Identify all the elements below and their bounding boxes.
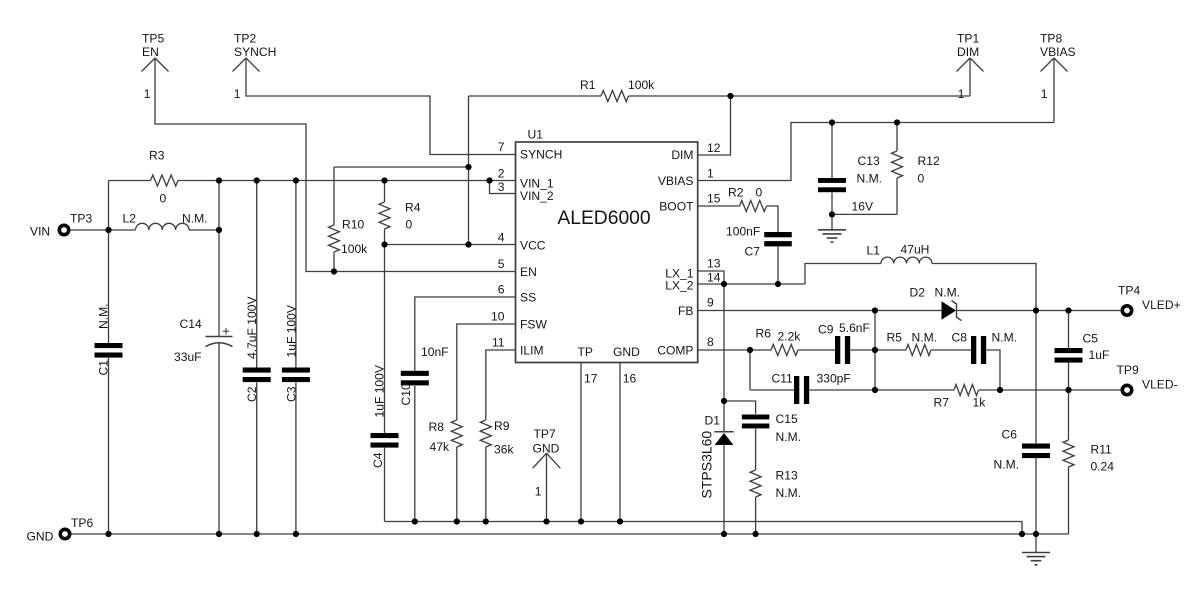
svg-text:100nF: 100nF [726,225,760,239]
svg-text:1uF 100V: 1uF 100V [284,304,298,357]
svg-text:L2: L2 [123,212,137,226]
svg-text:N.M.: N.M. [935,286,961,300]
svg-text:C15: C15 [776,412,798,426]
svg-text:R10: R10 [342,218,364,232]
svg-text:C5: C5 [1083,332,1099,346]
svg-text:N.M.: N.M. [857,172,883,186]
svg-text:TP2: TP2 [234,32,256,46]
svg-text:GND: GND [613,345,640,359]
svg-text:8: 8 [707,335,714,349]
svg-text:VCC: VCC [520,239,546,253]
svg-text:GND: GND [27,530,54,544]
svg-text:EN: EN [142,45,159,59]
svg-text:C8: C8 [952,331,968,345]
svg-text:R1: R1 [580,78,596,92]
svg-text:1: 1 [535,485,542,499]
svg-text:4.7uF 100V: 4.7uF 100V [245,296,259,359]
svg-text:C13: C13 [858,154,880,168]
svg-text:R6: R6 [756,327,772,341]
svg-text:10: 10 [491,310,505,324]
svg-text:DIM: DIM [957,45,979,59]
svg-text:16: 16 [623,372,637,386]
svg-text:N.M.: N.M. [776,486,802,500]
svg-text:5: 5 [498,257,505,271]
svg-text:VLED+: VLED+ [1142,298,1181,312]
svg-text:VBIAS: VBIAS [1040,45,1076,59]
svg-text:C9: C9 [818,323,834,337]
svg-text:TP8: TP8 [1040,32,1062,46]
svg-text:N.M.: N.M. [912,331,938,345]
svg-text:R7: R7 [934,396,950,410]
svg-text:SS: SS [520,291,536,305]
svg-text:1: 1 [234,87,241,101]
svg-text:0.24: 0.24 [1091,460,1115,474]
svg-text:33uF: 33uF [174,350,202,364]
svg-text:C14: C14 [180,317,202,331]
svg-text:VIN: VIN [30,225,50,239]
svg-text:N.M.: N.M. [97,303,111,329]
svg-text:TP4: TP4 [1118,284,1140,298]
svg-text:1: 1 [958,87,965,101]
svg-text:ALED6000: ALED6000 [557,208,650,229]
svg-text:1: 1 [707,167,714,181]
svg-text:R9: R9 [494,419,510,433]
svg-text:GND: GND [533,442,560,456]
svg-text:12: 12 [707,141,721,155]
svg-text:R8: R8 [429,420,445,434]
svg-text:2: 2 [498,167,505,181]
svg-text:13: 13 [707,257,721,271]
svg-text:0: 0 [918,172,925,186]
svg-text:C1: C1 [97,360,111,376]
svg-text:R4: R4 [405,201,421,215]
svg-text:U1: U1 [528,128,544,142]
svg-text:11: 11 [492,336,505,350]
svg-text:ILIM: ILIM [520,344,544,358]
svg-text:10nF: 10nF [421,345,449,359]
svg-text:2.2k: 2.2k [778,330,802,344]
svg-text:6: 6 [498,283,505,297]
svg-text:N.M.: N.M. [994,458,1020,472]
svg-text:TP7: TP7 [534,427,556,441]
svg-text:C3: C3 [284,386,298,402]
svg-text:VLED-: VLED- [1142,378,1178,392]
svg-text:SYNCH: SYNCH [234,45,276,59]
svg-text:C2: C2 [245,386,259,402]
svg-text:4: 4 [498,231,505,245]
svg-text:TP: TP [578,345,593,359]
svg-text:R11: R11 [1091,443,1113,457]
svg-text:LX_2: LX_2 [665,279,694,293]
svg-text:C4: C4 [371,452,385,468]
svg-text:N.M.: N.M. [776,430,802,444]
svg-text:0: 0 [406,218,413,232]
svg-text:7: 7 [498,140,505,154]
svg-text:1uF 100V: 1uF 100V [373,364,387,417]
svg-text:R2: R2 [728,186,744,200]
svg-text:100k: 100k [628,78,655,92]
svg-text:R5: R5 [887,331,903,345]
svg-text:C10: C10 [399,383,413,405]
svg-text:BOOT: BOOT [659,200,694,214]
svg-text:STPS3L60: STPS3L60 [699,431,715,499]
svg-text:TP5: TP5 [142,32,164,46]
svg-text:L1: L1 [867,244,881,258]
svg-text:TP6: TP6 [71,516,93,530]
svg-text:EN: EN [520,265,537,279]
svg-text:36k: 36k [494,443,514,457]
svg-text:330pF: 330pF [817,372,851,386]
svg-text:VBIAS: VBIAS [658,174,694,188]
svg-text:C11: C11 [772,372,794,386]
svg-text:FSW: FSW [520,318,547,332]
svg-text:C7: C7 [745,245,761,259]
svg-text:TP3: TP3 [70,212,92,226]
svg-text:R13: R13 [776,469,798,483]
svg-text:C6: C6 [1002,428,1018,442]
svg-text:TP9: TP9 [1117,363,1139,377]
svg-text:47uH: 47uH [901,243,930,257]
svg-text:R12: R12 [918,154,940,168]
svg-text:47k: 47k [430,440,450,454]
svg-text:COMP: COMP [657,344,693,358]
svg-text:D1: D1 [705,414,721,428]
svg-text:SYNCH: SYNCH [520,148,562,162]
svg-text:0: 0 [756,186,763,200]
svg-text:1k: 1k [973,396,987,410]
svg-text:14: 14 [707,271,721,285]
svg-text:1uF: 1uF [1089,348,1110,362]
svg-text:D2: D2 [910,286,926,300]
svg-text:VIN_2: VIN_2 [520,189,554,203]
svg-text:DIM: DIM [671,148,693,162]
svg-text:R3: R3 [149,149,165,163]
svg-text:17: 17 [584,372,598,386]
svg-text:100k: 100k [341,242,368,256]
svg-text:1: 1 [144,87,151,101]
svg-text:TP1: TP1 [957,32,979,46]
svg-text:FB: FB [678,304,693,318]
svg-text:1: 1 [1041,87,1048,101]
svg-text:15: 15 [707,192,721,206]
svg-text:5.6nF: 5.6nF [839,321,870,335]
svg-text:N.M.: N.M. [182,212,208,226]
svg-text:9: 9 [707,296,714,310]
svg-text:16V: 16V [852,200,874,214]
svg-text:0: 0 [160,192,167,206]
svg-text:N.M.: N.M. [992,331,1018,345]
svg-text:3: 3 [498,180,505,194]
